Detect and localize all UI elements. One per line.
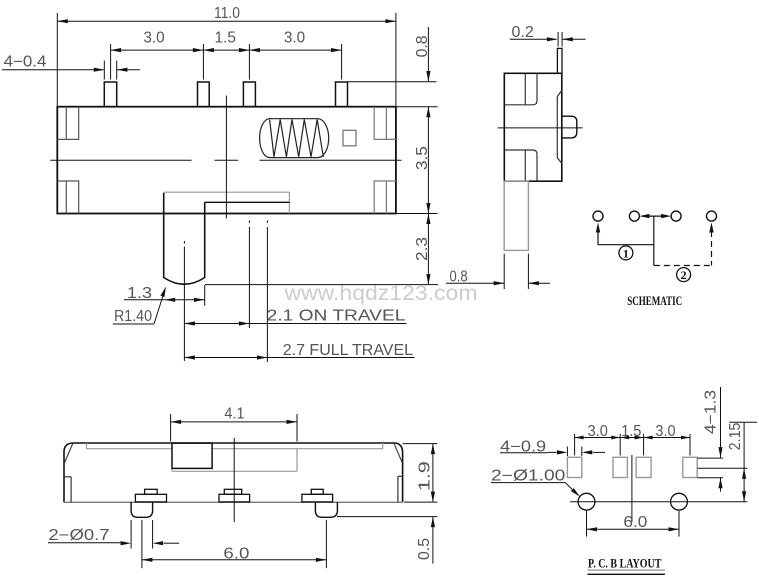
svg-text:3.0: 3.0 xyxy=(588,423,608,440)
side view body xyxy=(504,73,562,181)
svg-text:6.0: 6.0 xyxy=(623,514,647,531)
dim 3.0 / 1.5 / 3.0 xyxy=(110,44,112,80)
pad 2 xyxy=(613,457,627,477)
dim 11.0 xyxy=(56,13,58,106)
pin 1 xyxy=(104,82,116,107)
svg-text:1.9: 1.9 xyxy=(416,461,433,491)
svg-text:2.15: 2.15 xyxy=(727,423,744,451)
chamfer right xyxy=(394,443,403,463)
pcb right ext lines xyxy=(698,457,724,459)
svg-text:2.3: 2.3 xyxy=(414,237,431,261)
svg-text:P. C. B LAYOUT: P. C. B LAYOUT xyxy=(588,556,662,571)
svg-text:1.5: 1.5 xyxy=(621,423,641,440)
svg-text:3.5: 3.5 xyxy=(414,146,431,170)
knob from bottom xyxy=(172,443,212,468)
bottom edge xyxy=(64,501,403,503)
svg-text:SCHEMATIC: SCHEMATIC xyxy=(627,294,682,308)
dim 0.8 bottom xyxy=(503,254,505,289)
dim 0.8 right xyxy=(348,81,437,83)
dim 0.5 xyxy=(337,516,437,518)
hole centerline xyxy=(570,501,747,503)
schematic terminal 3 xyxy=(671,211,681,221)
svg-text:3.0: 3.0 xyxy=(284,30,305,47)
svg-text:1.3: 1.3 xyxy=(127,285,152,302)
foot 2 xyxy=(224,489,241,494)
spring xyxy=(260,119,329,158)
dim 1.3 xyxy=(124,299,205,301)
svg-text:4−1.3: 4−1.3 xyxy=(703,390,720,434)
svg-text:6.0: 6.0 xyxy=(223,546,249,563)
svg-text:2.1 ON TRAVEL: 2.1 ON TRAVEL xyxy=(267,307,406,324)
svg-text:3.0: 3.0 xyxy=(143,30,164,47)
svg-text:2: 2 xyxy=(681,268,687,282)
dim 1.9 xyxy=(403,443,438,445)
foot 3 xyxy=(311,489,323,494)
horizontal centerline xyxy=(50,159,191,161)
svg-text:4−0.4: 4−0.4 xyxy=(4,53,47,70)
pad 4 xyxy=(683,457,697,477)
dim 4.1 xyxy=(170,414,172,442)
notch left-bottom xyxy=(57,181,78,214)
side centerline xyxy=(498,127,583,129)
dim 3.5 xyxy=(427,107,429,214)
hole 2 xyxy=(671,493,688,510)
chamfer left xyxy=(64,443,73,463)
left tab xyxy=(70,477,72,503)
dim 2.3 xyxy=(396,213,438,215)
svg-text:2−Ø0.7: 2−Ø0.7 xyxy=(48,527,109,544)
side cover edge xyxy=(557,90,562,163)
svg-text:www.hqdz123.com: www.hqdz123.com xyxy=(283,282,477,305)
bottom view centerline xyxy=(233,438,235,522)
schematic terminal 2 xyxy=(629,211,639,221)
inner top line xyxy=(86,448,172,450)
pad 3 xyxy=(636,457,651,477)
schematic terminal 4 xyxy=(707,211,717,221)
slider plate (grey) xyxy=(164,191,290,193)
hole 1 xyxy=(578,493,595,510)
slider slot xyxy=(172,470,297,472)
main view: switch body xyxy=(57,107,396,214)
svg-text:2.7 FULL TRAVEL: 2.7 FULL TRAVEL xyxy=(283,342,413,359)
knob outline xyxy=(164,193,205,284)
svg-text:3.0: 3.0 xyxy=(655,423,675,440)
pin 3 xyxy=(243,82,255,107)
pcb dim 6.0 xyxy=(586,511,588,537)
svg-text:11.0: 11.0 xyxy=(214,5,240,22)
pcb dim 2.15 xyxy=(729,421,757,423)
schematic terminal 1 xyxy=(593,211,603,221)
right tab xyxy=(397,476,399,502)
pcb dim 3.0/1.5/3.0 xyxy=(574,434,576,456)
pad 1 xyxy=(567,457,581,477)
pcb dim 4-1.3 xyxy=(720,387,722,458)
foot 1 xyxy=(145,489,158,494)
side knob xyxy=(562,116,577,138)
bottom view body xyxy=(64,443,403,502)
svg-text:0.5: 0.5 xyxy=(416,538,433,560)
notch left-top xyxy=(57,107,78,140)
svg-text:1: 1 xyxy=(623,247,629,261)
circled 1 xyxy=(619,246,633,260)
side pin bottom xyxy=(504,181,528,250)
svg-text:0.8: 0.8 xyxy=(414,35,431,57)
pcb centerline xyxy=(631,455,633,522)
svg-text:1.5: 1.5 xyxy=(215,30,236,47)
pin 4 xyxy=(336,82,348,107)
contact square xyxy=(343,130,356,146)
dim 6.0 bottom view xyxy=(141,520,143,568)
schematic wire pos2 (dashed) xyxy=(654,265,712,267)
svg-text:R1.40: R1.40 xyxy=(114,308,152,325)
dim 2.7 FULL TRAVEL xyxy=(184,357,414,359)
ext line knob bottom xyxy=(205,284,438,286)
dim 2.1 ON TRAVEL xyxy=(183,241,185,244)
vertical centerline xyxy=(225,96,227,219)
side notch top xyxy=(524,73,526,105)
schematic common wire pos1 xyxy=(645,215,665,217)
side pin top xyxy=(557,48,562,73)
notch right-bottom xyxy=(374,181,396,214)
dim 2-O0.7 xyxy=(130,520,132,549)
pin 2 xyxy=(198,82,210,107)
svg-text:0.2: 0.2 xyxy=(512,24,534,41)
notch right-top xyxy=(374,107,396,140)
circled 2 xyxy=(677,268,691,282)
side notch bottom xyxy=(524,150,526,181)
svg-text:4.1: 4.1 xyxy=(224,406,244,423)
